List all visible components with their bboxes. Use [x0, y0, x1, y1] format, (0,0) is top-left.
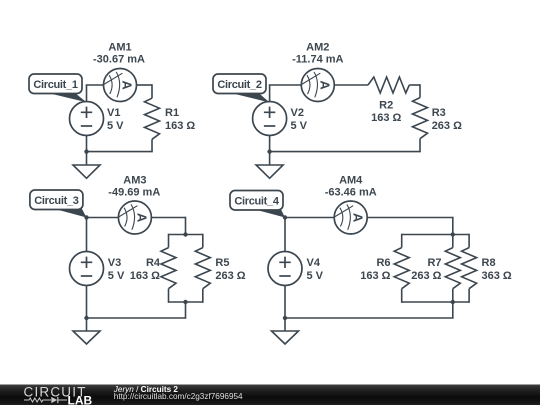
wire R3 bottom: [419, 139, 421, 152]
voltage source V3: [70, 252, 104, 286]
wire stub rail to bottom C3: [185, 302, 187, 318]
svg-text:5 V: 5 V: [291, 120, 308, 132]
wire R4 bottom lead: [168, 289, 170, 303]
svg-text:LAB: LAB: [68, 393, 93, 405]
svg-text:163 Ω: 163 Ω: [360, 270, 390, 282]
wire V1 bottom: [86, 136, 88, 152]
logo diode: [51, 397, 57, 403]
resistor R2: [368, 77, 409, 93]
svg-text:263 Ω: 263 Ω: [411, 270, 441, 282]
wire V4 top vertical: [284, 218, 286, 252]
voltage source V4: [268, 252, 302, 286]
svg-text:163 Ω: 163 Ω: [130, 270, 160, 282]
svg-text:R5: R5: [215, 257, 229, 269]
wire AM2 to R2: [334, 84, 368, 86]
wire R7 top lead: [452, 235, 454, 248]
wire ground stub C1: [86, 152, 88, 165]
wire R1 bottom: [151, 139, 153, 151]
svg-text:-49.69 mA: -49.69 mA: [108, 187, 160, 199]
wire top horizontal to AM4: [285, 217, 334, 219]
wire bottom horizontal C1: [87, 151, 153, 153]
wire top horizontal to AM3: [87, 217, 119, 219]
ground C4: [272, 331, 299, 344]
svg-text:R8: R8: [482, 257, 496, 269]
wire bottom horizontal C3: [87, 317, 187, 319]
svg-text:A: A: [317, 80, 332, 90]
svg-text:R3: R3: [432, 107, 446, 119]
ground C3: [73, 331, 100, 344]
svg-text:A: A: [135, 213, 150, 223]
wire R7 bottom lead: [452, 289, 454, 302]
voltage source V1: [70, 102, 104, 136]
svg-text:http://circuitlab.com/c2g3zf76: http://circuitlab.com/c2g3zf7696954: [114, 392, 243, 401]
wire V4 bottom: [284, 286, 286, 319]
wire AM4 to corner: [367, 217, 453, 219]
label flag Circuit_2: [213, 74, 270, 103]
wire top rail C3: [169, 234, 203, 236]
wire R4 top lead: [168, 234, 170, 248]
svg-text:R1: R1: [165, 107, 179, 119]
resistor R4: [161, 248, 176, 289]
svg-text:AM4: AM4: [339, 175, 363, 187]
svg-text:Circuit_3: Circuit_3: [34, 195, 79, 207]
svg-text:R2: R2: [379, 100, 393, 112]
wire R6 top lead: [401, 234, 403, 248]
junction node C4 rail bottom: [451, 300, 455, 304]
junction node C3 top: [84, 215, 88, 219]
wire V3 top vertical: [86, 218, 88, 252]
wire top rail C4: [402, 234, 469, 236]
svg-text:5 V: 5 V: [307, 270, 324, 282]
svg-text:V4: V4: [307, 257, 321, 269]
wire V1 top vertical: [86, 85, 88, 102]
svg-text:AM3: AM3: [123, 175, 146, 187]
svg-text:5 V: 5 V: [108, 270, 125, 282]
resistor R8: [462, 248, 477, 289]
svg-text:A: A: [350, 213, 365, 223]
wire AM3 to corner: [151, 217, 185, 219]
svg-text:V1: V1: [107, 107, 120, 119]
wire R5 bottom lead: [202, 289, 204, 303]
wire V3 bottom: [86, 286, 88, 319]
svg-text:163 Ω: 163 Ω: [371, 112, 401, 124]
wire AM1 to corner: [137, 84, 153, 86]
svg-text:-30.67 mA: -30.67 mA: [93, 54, 145, 66]
wire bottom rail C4: [402, 301, 469, 303]
junction node C4 top: [283, 215, 287, 219]
resistor R3: [413, 98, 428, 139]
wire corner down to R3: [419, 84, 421, 97]
junction node C3 rail top: [183, 232, 187, 236]
ammeter AM1: [104, 69, 137, 102]
svg-text:263 Ω: 263 Ω: [432, 120, 462, 132]
resistor R6: [394, 248, 409, 289]
label flag Circuit_4: [230, 191, 285, 218]
label flag Circuit_1: [29, 74, 87, 102]
ammeter AM3: [118, 201, 151, 234]
label flag Circuit_3: [30, 190, 87, 218]
voltage source V2: [253, 102, 287, 136]
wire ground stub C2: [269, 152, 271, 165]
svg-text:AM1: AM1: [108, 42, 131, 54]
svg-text:R4: R4: [146, 257, 161, 269]
wire R6 bottom lead: [401, 289, 403, 303]
junction node C3 bottom: [84, 316, 88, 320]
svg-text:Circuit_2: Circuit_2: [217, 79, 262, 91]
svg-text:-11.74 mA: -11.74 mA: [292, 54, 343, 66]
ground C2: [256, 165, 283, 178]
wire bottom horizontal C2: [270, 151, 421, 153]
wire R5 top lead: [202, 234, 204, 248]
svg-text:R6: R6: [376, 257, 390, 269]
svg-text:V3: V3: [108, 257, 121, 269]
svg-text:5 V: 5 V: [107, 120, 124, 132]
junction node C4 rail top: [451, 232, 455, 236]
svg-text:363 Ω: 363 Ω: [482, 270, 512, 282]
wire R8 bottom lead: [468, 289, 470, 303]
resistor R7: [445, 248, 460, 289]
junction node C3 rail bottom: [183, 300, 187, 304]
junction node C2: [267, 149, 271, 153]
junction node C1: [84, 149, 88, 153]
wire R8 top lead: [468, 234, 470, 248]
logo resistor squiggle: [24, 398, 51, 402]
svg-text:-63.46 mA: -63.46 mA: [325, 187, 377, 199]
svg-text:R7: R7: [427, 257, 441, 269]
resistor R5: [195, 248, 210, 289]
ammeter AM2: [301, 69, 334, 102]
svg-text:V2: V2: [291, 107, 304, 119]
svg-text:263 Ω: 263 Ω: [215, 270, 245, 282]
junction node C4 bottom: [283, 316, 287, 320]
svg-text:Circuit_4: Circuit_4: [234, 196, 280, 208]
wire V2 top vertical: [269, 85, 271, 102]
wire R2 to corner: [409, 84, 420, 86]
wire top horizontal to AM1: [86, 84, 104, 86]
wire down to parallel top rail C3: [185, 217, 187, 235]
ground C1: [73, 165, 100, 178]
svg-text:163 Ω: 163 Ω: [165, 120, 195, 132]
wire stub rail to bottom C4: [452, 302, 454, 318]
svg-text:AM2: AM2: [306, 42, 329, 54]
wire corner down to R1: [151, 84, 153, 98]
wire V2 bottom: [269, 136, 271, 152]
wire bottom horizontal C4: [285, 317, 454, 319]
svg-text:A: A: [120, 80, 135, 90]
resistor R1: [145, 98, 160, 139]
wire bottom rail C3: [169, 301, 203, 303]
wire top horizontal to AM2: [269, 84, 302, 86]
wire down to parallel top rail C4: [452, 217, 454, 235]
wire ground stub C4: [284, 318, 286, 331]
svg-text:Circuit_1: Circuit_1: [33, 79, 78, 91]
ammeter AM4: [334, 201, 367, 234]
wire ground stub C3: [86, 318, 88, 331]
